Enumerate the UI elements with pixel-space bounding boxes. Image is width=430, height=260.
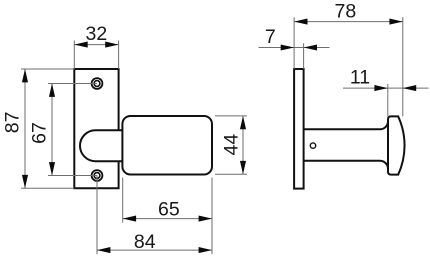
svg-text:11: 11	[350, 66, 370, 88]
dim 11 ext line left	[387, 84, 389, 117]
dim 84 ext line left	[96, 176, 98, 255]
screw hole top	[92, 78, 103, 89]
dim 65 ext line left	[122, 178, 124, 223]
dim 11 tail right	[403, 87, 429, 89]
dim 32 ext line left	[73, 41, 75, 70]
dim 84 line	[97, 249, 212, 251]
dim 44 ext line bottom	[215, 173, 247, 175]
wall plate front view	[74, 69, 118, 188]
svg-text:65: 65	[158, 199, 180, 221]
dim 67 ext line bottom	[48, 175, 97, 177]
dim 7 tail right	[304, 47, 330, 49]
handle body front view	[122, 116, 212, 175]
dim 7 ext line right	[303, 43, 305, 69]
knob side view	[388, 116, 405, 174]
dim 87 ext line bottom	[21, 187, 74, 189]
dim 44 line	[242, 116, 244, 174]
dim 7 line between	[294, 47, 304, 49]
dim 67 ext line top	[48, 83, 97, 85]
wall plate side view	[294, 69, 304, 189]
svg-text:32: 32	[86, 23, 108, 45]
dim 11 line between	[388, 87, 403, 89]
dim 32 ext line right	[118, 41, 120, 70]
svg-text:87: 87	[2, 112, 24, 134]
screw hole bottom	[92, 170, 103, 181]
dim 32 line	[74, 44, 118, 46]
dim 87 ext line top	[21, 68, 74, 70]
dim 78 line	[294, 21, 403, 23]
svg-text:78: 78	[335, 1, 357, 23]
set screw hole side view	[310, 143, 315, 148]
neck front view	[80, 130, 123, 161]
dim 87 line	[24, 69, 26, 188]
arm top line with fillet	[304, 121, 388, 129]
dim 65 ext line right / 84 ext line right	[211, 178, 213, 255]
svg-text:7: 7	[265, 26, 276, 48]
svg-text:67: 67	[29, 122, 51, 144]
svg-text:44: 44	[220, 134, 242, 156]
dim 67 line	[51, 84, 53, 176]
dim 78 ext line left	[293, 17, 295, 69]
dim 78 ext line right / 11 ext line right	[402, 17, 404, 116]
dim 7 tail left	[259, 47, 295, 49]
dim 11 tail left	[343, 87, 388, 89]
arm bottom line with fillet	[304, 161, 388, 169]
svg-text:84: 84	[134, 231, 156, 253]
dim 44 ext line top	[215, 115, 247, 117]
dim 65 line	[123, 218, 212, 220]
